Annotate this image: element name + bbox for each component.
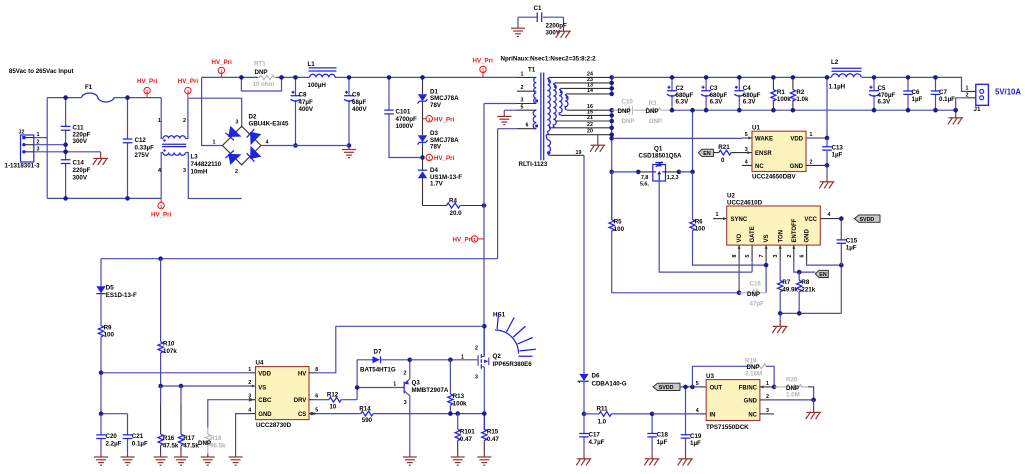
IN line to U3: [652, 413, 700, 415]
svg-text:DNP: DNP: [646, 108, 659, 115]
svg-text:1.0M: 1.0M: [786, 392, 800, 399]
svg-text:1: 1: [966, 85, 969, 91]
earth ground R18: [201, 454, 215, 465]
MOSFET Q2: [461, 324, 532, 414]
svg-text:BAT54HT1G: BAT54HT1G: [360, 367, 396, 374]
svg-text:GATE: GATE: [750, 226, 756, 242]
resistor R11: [584, 406, 652, 426]
wire J2 pin3: [34, 151, 66, 153]
svg-text:7: 7: [759, 255, 765, 258]
chassis ground C19: [678, 452, 693, 465]
svg-text:21: 21: [587, 115, 593, 121]
svg-text:3: 3: [521, 98, 524, 104]
svg-text:20.0: 20.0: [450, 210, 463, 217]
svg-text:Q3: Q3: [412, 379, 421, 386]
svg-text:47pF: 47pF: [750, 300, 765, 307]
svg-text:2: 2: [248, 380, 251, 386]
EN flag at U1: [698, 149, 713, 157]
svg-text:1: 1: [160, 204, 163, 209]
earth ground C21: [121, 454, 135, 465]
capacitor C19: [681, 387, 702, 452]
svg-text:1: 1: [187, 89, 190, 94]
svg-text:D2: D2: [249, 113, 257, 120]
svg-text:FB/NC: FB/NC: [739, 385, 758, 391]
svg-text:C1: C1: [534, 5, 542, 12]
svg-text:C15: C15: [846, 238, 858, 245]
svg-text:3: 3: [773, 255, 779, 258]
svg-text:R101: R101: [460, 429, 475, 436]
svg-text:C21: C21: [132, 433, 144, 440]
svg-text:CDBA140-G: CDBA140-G: [592, 381, 627, 388]
svg-text:5: 5: [745, 255, 751, 258]
svg-text:1,2,3: 1,2,3: [667, 175, 679, 181]
svg-text:0: 0: [721, 157, 725, 164]
wire Q1 drain riser to bus: [679, 110, 693, 172]
svg-text:4: 4: [828, 212, 831, 218]
wire J2 pin2: [34, 144, 66, 146]
svg-text:4: 4: [745, 160, 748, 166]
svg-text:4: 4: [696, 408, 699, 414]
svg-text:T1: T1: [528, 67, 536, 74]
capacitor C21: [123, 414, 148, 454]
svg-text:1: 1: [248, 367, 251, 373]
svg-text:4: 4: [158, 168, 161, 174]
svg-text:2: 2: [183, 118, 186, 124]
svg-text:GND: GND: [258, 412, 272, 418]
svg-text:7,8: 7,8: [641, 175, 648, 181]
svg-text:C9: C9: [352, 92, 360, 99]
svg-text:GND: GND: [805, 229, 811, 243]
SVDD flag at U2 VCC: [854, 215, 880, 223]
svg-text:HV_Pri: HV_Pri: [434, 155, 455, 162]
svg-text:R21: R21: [718, 144, 730, 151]
svg-text:1: 1: [766, 381, 769, 387]
svg-text:8: 8: [732, 255, 738, 258]
wire RT1 bypass loop: [241, 77, 281, 91]
svg-text:100k: 100k: [777, 96, 791, 103]
svg-text:R15: R15: [487, 429, 499, 436]
svg-text:0.1µF: 0.1µF: [132, 440, 148, 447]
svg-text:1-1318301-3: 1-1318301-3: [5, 163, 41, 170]
svg-text:C19: C19: [690, 433, 702, 440]
svg-text:R3: R3: [649, 100, 657, 107]
svg-text:DNP: DNP: [747, 291, 760, 298]
svg-text:10: 10: [329, 403, 336, 410]
resistor R5: [609, 172, 739, 293]
chassis ground T1 pin20: [590, 135, 605, 152]
svg-text:6.3V: 6.3V: [710, 99, 724, 106]
chassis ground C1 right: [556, 25, 571, 38]
capacitor C7: [931, 75, 955, 112]
svg-text:590: 590: [362, 417, 373, 424]
svg-text:D7: D7: [374, 348, 382, 355]
svg-text:VS: VS: [258, 386, 266, 392]
svg-text:1: 1: [521, 71, 524, 77]
svg-text:R14: R14: [359, 405, 371, 412]
svg-text:DNP: DNP: [649, 118, 662, 125]
transformer T1: [501, 56, 612, 169]
HV_Pri flag at input bottom: [151, 198, 172, 218]
svg-text:100k: 100k: [453, 401, 467, 408]
TVS diode D3: [418, 117, 460, 158]
svg-text:2.2µF: 2.2µF: [106, 440, 122, 447]
resistor R13: [448, 360, 467, 414]
svg-text:22: 22: [587, 122, 593, 128]
resistor R4: [423, 197, 487, 217]
U3 GND wire: [760, 399, 770, 401]
resistor R7: [778, 279, 799, 313]
svg-text:C101: C101: [396, 108, 411, 115]
earth ground R15: [477, 454, 491, 465]
U3 FB wire: [760, 386, 774, 388]
resistor R8: [797, 272, 816, 313]
svg-text:4.7µF: 4.7µF: [589, 439, 605, 446]
svg-text:GND: GND: [744, 399, 758, 405]
svg-text:5: 5: [521, 104, 524, 110]
MOSFET Q1: [636, 145, 752, 272]
resistor R15: [482, 414, 500, 454]
svg-text:3.16M: 3.16M: [745, 371, 762, 378]
svg-text:SVDD: SVDD: [860, 217, 875, 223]
capacitor C3: [701, 75, 727, 112]
svg-text:744822110: 744822110: [191, 161, 222, 168]
chassis ground at J2: [66, 152, 108, 165]
svg-text:5V/10A: 5V/10A: [995, 88, 1021, 97]
svg-text:DNP: DNP: [622, 118, 635, 125]
svg-text:SVDD: SVDD: [659, 385, 674, 391]
svg-text:1: 1: [213, 140, 216, 146]
svg-text:1.0k: 1.0k: [796, 96, 809, 103]
svg-text:19: 19: [576, 150, 582, 156]
svg-text:6.3V: 6.3V: [743, 99, 757, 106]
svg-text:D6: D6: [592, 373, 600, 380]
chassis ground C18: [644, 452, 659, 465]
svg-text:F1: F1: [85, 84, 93, 91]
VS line to U4: [161, 385, 250, 387]
svg-text:2: 2: [766, 394, 769, 400]
chassis ground U3 GND: [806, 400, 821, 419]
svg-text:HV_Pri: HV_Pri: [212, 59, 233, 66]
CBC wire to R18: [250, 399, 256, 401]
fuse F1: [82, 84, 115, 102]
svg-text:VCC: VCC: [804, 217, 817, 223]
svg-text:3: 3: [404, 400, 407, 406]
svg-text:U3: U3: [706, 373, 714, 380]
svg-text:1µF: 1µF: [832, 152, 843, 159]
wire U1 VDD riser: [826, 77, 828, 138]
HV_Pri flag on rail: [212, 59, 233, 77]
svg-text:1.0: 1.0: [598, 418, 607, 425]
svg-text:L3: L3: [191, 154, 199, 161]
earth ground R17: [174, 454, 188, 465]
svg-text:C12: C12: [135, 137, 147, 144]
svg-text:1: 1: [158, 118, 161, 124]
svg-text:R12: R12: [327, 392, 339, 399]
svg-text:275V: 275V: [135, 152, 150, 159]
capacitor C2: [667, 75, 693, 112]
IC U3 TPS71550DCK: [696, 373, 769, 431]
capacitor C4: [734, 75, 760, 112]
svg-text:Q2: Q2: [493, 353, 502, 360]
chassis ground C17: [576, 452, 591, 465]
HV_Pri flag at L3 pin2: [178, 78, 199, 97]
svg-text:1µF: 1µF: [846, 245, 857, 252]
inductor L1: [308, 61, 337, 89]
svg-text:UCC24650DBV: UCC24650DBV: [752, 174, 797, 181]
wire input left loop: [47, 98, 161, 199]
svg-text:2: 2: [235, 169, 238, 175]
svg-text:C13: C13: [832, 144, 844, 151]
resistor R16: [158, 386, 179, 454]
svg-text:300V: 300V: [73, 174, 88, 181]
svg-text:J1: J1: [974, 106, 981, 113]
svg-text:300V: 300V: [73, 138, 88, 145]
svg-text:400V: 400V: [299, 106, 314, 113]
wire pin19 riser: [583, 155, 585, 373]
svg-text:RT1: RT1: [254, 61, 266, 68]
svg-text:UCC28730D: UCC28730D: [256, 422, 292, 429]
svg-text:R13: R13: [453, 393, 465, 400]
svg-text:UCC24610D: UCC24610D: [727, 200, 763, 207]
svg-text:6.3V: 6.3V: [676, 99, 690, 106]
svg-text:14: 14: [587, 88, 593, 94]
T1 secondary junction column: [609, 75, 614, 220]
svg-text:HV_Pri: HV_Pri: [453, 237, 474, 244]
wire T1 pin6 aux riser: [498, 129, 517, 259]
EN flag at U2: [815, 270, 828, 278]
wire HV_Pri line L3pin2 to bridge: [188, 98, 242, 126]
svg-text:4: 4: [266, 140, 269, 146]
svg-text:GBU4K-E3/45: GBU4K-E3/45: [249, 121, 289, 128]
wire J2 pin1 to input line: [34, 137, 47, 139]
svg-text:1: 1: [428, 156, 431, 161]
svg-text:GND: GND: [790, 164, 804, 170]
svg-text:1: 1: [146, 89, 149, 94]
svg-text:400V: 400V: [352, 106, 367, 113]
svg-text:C14: C14: [73, 160, 85, 167]
svg-text:R7: R7: [782, 279, 790, 286]
U4 GND wire: [250, 413, 256, 415]
HV_Pri flag at D1-D3: [423, 116, 455, 124]
svg-text:EN: EN: [703, 151, 711, 157]
svg-text:MMBT2907A: MMBT2907A: [412, 387, 449, 394]
svg-text:100µH: 100µH: [308, 82, 327, 89]
svg-text:85Vac to 265Vac Input: 85Vac to 265Vac Input: [9, 68, 74, 75]
svg-text:3: 3: [475, 375, 478, 381]
wire bridge positive bus: [261, 145, 349, 147]
svg-text:NC: NC: [748, 412, 757, 418]
IC U1 UCC24650DBV: [742, 125, 827, 181]
svg-text:100: 100: [104, 332, 115, 339]
svg-text:78V: 78V: [430, 102, 442, 109]
svg-text:220pF: 220pF: [73, 167, 91, 174]
svg-text:R5: R5: [614, 219, 622, 226]
connector J1: [966, 84, 989, 113]
svg-text:1.1µH: 1.1µH: [829, 83, 846, 90]
svg-text:1.7V: 1.7V: [430, 180, 444, 187]
svg-text:78V: 78V: [430, 143, 442, 150]
svg-text:R16: R16: [163, 435, 175, 442]
svg-text:1µF: 1µF: [912, 96, 923, 103]
svg-text:HV_Pri: HV_Pri: [178, 78, 199, 85]
earth ground R101: [451, 454, 465, 465]
svg-text:47.5k: 47.5k: [163, 442, 179, 449]
capacitor C13: [822, 138, 843, 168]
HV_Pri flag on input line: [137, 78, 158, 97]
svg-text:0.1µF: 0.1µF: [939, 96, 955, 103]
svg-text:5: 5: [315, 408, 318, 414]
secondary rail: [612, 77, 968, 91]
chassis ground U1 GND: [819, 165, 834, 188]
svg-text:1: 1: [220, 69, 223, 74]
node dots input: [63, 95, 68, 100]
wire T1 pin3 net riser: [484, 104, 517, 357]
svg-text:20: 20: [587, 129, 593, 135]
svg-text:R9: R9: [104, 324, 112, 331]
svg-text:2: 2: [475, 345, 478, 351]
svg-text:3: 3: [248, 394, 251, 400]
WAKE net wire: [612, 137, 742, 139]
gate wire to Q2: [410, 359, 477, 361]
svg-text:5: 5: [696, 381, 699, 387]
svg-text:1: 1: [428, 117, 431, 122]
svg-text:C18: C18: [657, 432, 669, 439]
capacitor C12: [123, 95, 154, 200]
svg-text:0.47: 0.47: [460, 436, 473, 443]
svg-text:1: 1: [482, 68, 485, 73]
svg-text:C10: C10: [622, 99, 634, 106]
svg-text:R17: R17: [183, 435, 195, 442]
transistor Q3: [393, 358, 449, 454]
svg-text:8: 8: [315, 367, 318, 373]
svg-text:2: 2: [810, 160, 813, 166]
svg-text:DNP: DNP: [618, 108, 631, 115]
svg-text:6: 6: [800, 255, 806, 258]
capacitor C6: [903, 75, 922, 112]
resistor R1: [771, 75, 791, 112]
wire R7 R8 ground line: [780, 265, 841, 313]
DNP resistor R3: [646, 100, 673, 125]
U3 NC stub: [760, 413, 774, 415]
HV wire U4 to drain: [309, 372, 316, 374]
svg-text:R20: R20: [786, 377, 798, 384]
capacitor C9: [344, 75, 367, 148]
svg-text:3: 3: [236, 120, 239, 126]
C20 C21 node: [101, 373, 128, 414]
earth ground Q3: [403, 454, 417, 465]
capacitor C101: [384, 75, 422, 157]
SVDD flag at U3 OUT: [653, 383, 706, 391]
svg-text:RLTI-1123: RLTI-1123: [519, 161, 548, 168]
svg-text:2: 2: [787, 255, 793, 258]
svg-text:WAKE: WAKE: [755, 136, 773, 142]
svg-text:EN: EN: [819, 272, 827, 278]
inductor L2: [829, 59, 862, 90]
svg-text:6: 6: [315, 394, 318, 400]
capacitor C8: [291, 75, 314, 148]
svg-text:1: 1: [716, 212, 719, 218]
DNP resistor R20: [774, 377, 814, 400]
svg-text:100: 100: [695, 226, 706, 233]
svg-text:96.5k: 96.5k: [210, 442, 226, 449]
svg-text:TPS71550DCK: TPS71550DCK: [706, 424, 749, 431]
svg-text:1µF: 1µF: [657, 439, 668, 446]
chassis ground R7 R8: [772, 313, 787, 333]
svg-text:C17: C17: [589, 432, 601, 439]
secondary ground bus: [672, 98, 968, 110]
svg-text:NpriNaux:Nsec1:Nsec2=35:8:2:2: NpriNaux:Nsec1:Nsec2=35:8:2:2: [501, 56, 597, 63]
svg-text:10mH: 10mH: [191, 168, 208, 175]
resistor R10: [158, 259, 177, 386]
svg-text:IN: IN: [710, 412, 716, 418]
svg-text:L2: L2: [831, 59, 839, 66]
svg-text:2: 2: [404, 370, 407, 376]
svg-text:0.33µF: 0.33µF: [135, 145, 155, 152]
resistor R2: [790, 75, 809, 112]
svg-text:68µF: 68µF: [352, 99, 366, 106]
svg-text:1µF: 1µF: [690, 440, 701, 447]
svg-text:10 ohm: 10 ohm: [253, 81, 275, 88]
earth ground R16: [154, 454, 168, 465]
diode D5: [96, 259, 137, 326]
svg-text:NC: NC: [755, 164, 764, 170]
svg-text:R8: R8: [801, 279, 809, 286]
svg-text:D5: D5: [106, 285, 114, 292]
svg-text:L1: L1: [308, 61, 316, 68]
svg-text:3: 3: [766, 408, 769, 414]
capacitor C15: [837, 216, 858, 265]
svg-text:221k: 221k: [801, 287, 815, 294]
svg-text:0.47: 0.47: [487, 436, 500, 443]
svg-text:R4: R4: [449, 197, 457, 204]
svg-text:1: 1: [473, 237, 476, 242]
resistor R21: [713, 144, 752, 164]
svg-text:HV_Pri: HV_Pri: [137, 78, 158, 85]
diode D6: [578, 373, 627, 388]
wire D7 column: [357, 360, 404, 400]
svg-text:2: 2: [521, 85, 524, 91]
DNP resistor R18: [198, 428, 226, 454]
svg-text:HV_Pri: HV_Pri: [151, 212, 172, 219]
svg-text:TON: TON: [778, 230, 784, 243]
svg-text:1: 1: [393, 381, 396, 387]
capacitor C18: [647, 412, 668, 453]
svg-text:C8: C8: [299, 92, 307, 99]
svg-text:IPP65R380E6: IPP65R380E6: [493, 361, 533, 368]
earth ground U4 GND: [229, 454, 243, 465]
svg-text:5,6,: 5,6,: [640, 182, 649, 188]
svg-text:1: 1: [810, 132, 813, 138]
svg-text:2: 2: [966, 92, 969, 98]
svg-text:ENSR: ENSR: [755, 151, 772, 157]
thermistor RT1 DNP: [253, 61, 277, 88]
capacitor C17: [579, 414, 604, 452]
svg-text:3: 3: [183, 168, 186, 174]
resistor R9: [98, 324, 114, 373]
svg-text:R6: R6: [695, 218, 703, 225]
DRV wire and resistor R12: [309, 392, 357, 411]
earth ground C20: [94, 454, 108, 465]
HV_Pri flag at drain column: [453, 236, 485, 244]
earth ground C1 left: [511, 25, 525, 36]
svg-text:R18: R18: [210, 435, 222, 442]
svg-text:49.9k: 49.9k: [782, 287, 798, 294]
svg-text:OUT: OUT: [710, 385, 723, 391]
svg-text:4700pF: 4700pF: [396, 116, 418, 123]
svg-text:HS1: HS1: [493, 312, 506, 319]
svg-text:4: 4: [248, 408, 251, 414]
HV_Pri flag at D3-D4: [420, 154, 454, 162]
